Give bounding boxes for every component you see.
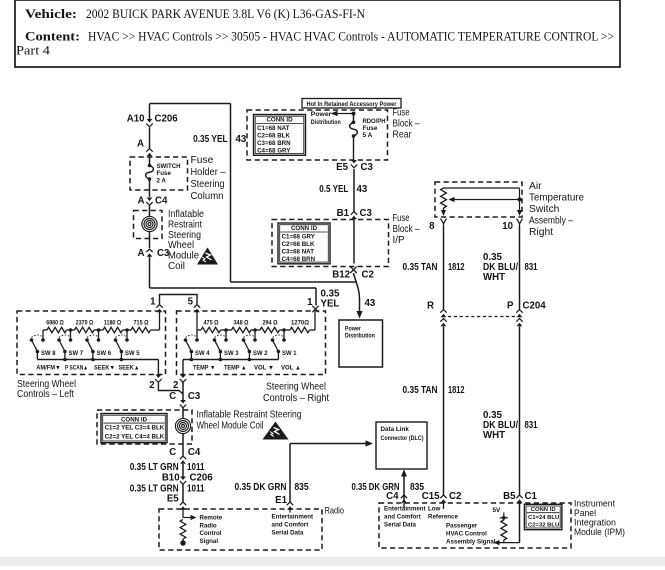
svg-text:Controls – Left: Controls – Left — [17, 389, 74, 400]
switch SW 5 — [126, 330, 128, 340]
air temp top wire — [444, 187, 520, 189]
warning triangle lower — [263, 422, 289, 440]
svg-text:Part 4: Part 4 — [16, 44, 51, 58]
wire B5 into IPM — [519, 503, 521, 543]
connector B12 C2 — [350, 267, 356, 273]
svg-text:0.5 YEL: 0.5 YEL — [319, 184, 348, 195]
svg-text:6980 Ω: 6980 Ω — [46, 320, 64, 327]
svg-text:294 Ω: 294 Ω — [263, 320, 278, 327]
resistor chain right box — [197, 329, 201, 331]
svg-text:Integration: Integration — [574, 518, 616, 528]
svg-text:C3: C3 — [188, 391, 201, 402]
bus junction dots left — [63, 358, 67, 362]
wire C3 to coil2 — [182, 408, 184, 420]
wire right vertical net43 — [230, 104, 232, 283]
switch SW 7 — [70, 330, 72, 340]
wire B12 to power distribution — [354, 273, 360, 312]
connector B10 C206 — [180, 477, 186, 481]
svg-text:1011: 1011 — [187, 462, 205, 473]
IPM signal arrow — [498, 542, 520, 544]
scan artifact band — [0, 557, 665, 567]
svg-text:831: 831 — [525, 420, 538, 431]
wire C4 stub IPM — [403, 503, 405, 508]
svg-text:B1: B1 — [337, 208, 350, 219]
air temperature switch box — [435, 182, 522, 217]
fuse block rear box — [247, 110, 388, 160]
svg-text:1812: 1812 — [448, 262, 465, 273]
svg-text:C2=32 BLU: C2=32 BLU — [528, 523, 559, 529]
fuse SWITCH 2A — [146, 166, 154, 180]
svg-text:Rear: Rear — [393, 130, 413, 141]
inflatable restraint coil upper — [149, 211, 151, 217]
coil box lower — [97, 410, 192, 444]
wire B10 to E5 — [182, 485, 184, 503]
chain junction dots left — [69, 328, 73, 332]
wire E1 into radio — [289, 510, 291, 513]
svg-text:Low: Low — [428, 506, 441, 513]
svg-text:WHT: WHT — [483, 430, 505, 441]
svg-text:1270Ω: 1270Ω — [291, 320, 309, 327]
svg-text:1: 1 — [150, 297, 156, 308]
svg-text:C2=2 YEL C4=4 BLK: C2=2 YEL C4=4 BLK — [105, 433, 165, 440]
svg-text:E5: E5 — [167, 494, 179, 505]
svg-text:2: 2 — [173, 380, 178, 391]
connector pin1 left box — [156, 305, 162, 308]
svg-text:C: C — [169, 447, 176, 458]
svg-text:C1=68 GRY: C1=68 GRY — [282, 233, 316, 240]
svg-text:Wheel: Wheel — [168, 240, 194, 251]
svg-text:C4: C4 — [386, 491, 399, 502]
wire E5 to B1 — [353, 169, 355, 212]
coil box upper — [134, 211, 163, 239]
svg-text:Fuse: Fuse — [393, 108, 410, 119]
svg-text:CONN ID: CONN ID — [121, 416, 148, 423]
svg-text:YEL: YEL — [321, 299, 340, 310]
svg-text:C3=68 NAT: C3=68 NAT — [282, 248, 315, 255]
wire net43 upper horizontal — [231, 281, 356, 283]
svg-text:Connector (DLC): Connector (DLC) — [381, 435, 424, 442]
power distribution box — [339, 320, 383, 367]
switch SW 6 — [98, 330, 100, 340]
svg-text:SW 3: SW 3 — [224, 350, 239, 357]
svg-text:A: A — [137, 139, 144, 150]
svg-text:CONN ID: CONN ID — [291, 225, 318, 232]
svg-text:Assembly Signal: Assembly Signal — [446, 539, 496, 546]
svg-text:P SCAN▲: P SCAN▲ — [65, 365, 88, 372]
wire pin1 left into chain — [159, 312, 161, 330]
svg-text:Instrument: Instrument — [574, 499, 616, 509]
svg-text:Panel: Panel — [574, 508, 596, 518]
svg-text:Distribution: Distribution — [345, 332, 375, 339]
svg-text:Steering: Steering — [168, 230, 201, 241]
C204 dashed line — [448, 316, 515, 318]
svg-text:Serial Data: Serial Data — [272, 530, 305, 537]
wire arrow to fuse — [353, 114, 355, 123]
svg-text:AM/FM▼: AM/FM▼ — [36, 365, 61, 372]
svg-text:VOL ▼: VOL ▼ — [254, 365, 274, 372]
svg-text:B12: B12 — [332, 270, 350, 281]
svg-text:C2=68 BLK: C2=68 BLK — [257, 132, 290, 139]
svg-text:Power: Power — [311, 111, 332, 118]
junction dot fuse rear — [352, 112, 356, 116]
wire R to C15 — [443, 327, 445, 496]
svg-text:C1=2 YEL C3=4 BLK: C1=2 YEL C3=4 BLK — [105, 425, 165, 432]
wire pin5 into chain right — [196, 312, 198, 340]
svg-text:Temperature: Temperature — [529, 193, 584, 204]
svg-text:Radio: Radio — [200, 522, 217, 529]
svg-text:CONN ID: CONN ID — [266, 117, 293, 124]
svg-text:WHT: WHT — [483, 272, 505, 283]
svg-text:VOL ▲: VOL ▲ — [281, 365, 301, 372]
svg-text:831: 831 — [525, 262, 538, 273]
svg-text:Steering Wheel: Steering Wheel — [266, 382, 326, 393]
svg-text:Passenger: Passenger — [446, 523, 478, 530]
svg-text:715 Ω: 715 Ω — [134, 320, 149, 327]
wire top horizontal net43 — [150, 103, 231, 105]
svg-text:HVAC Control: HVAC Control — [446, 531, 487, 538]
svg-text:P: P — [507, 301, 514, 312]
inflatable restraint coil lower — [182, 425, 185, 428]
svg-text:0.35 DK GRN: 0.35 DK GRN — [235, 482, 287, 493]
svg-text:C2=68 BLK: C2=68 BLK — [282, 241, 315, 248]
wire pins2 merge — [158, 383, 183, 395]
svg-text:C3: C3 — [360, 208, 373, 219]
wire coil to bus — [149, 257, 151, 288]
svg-text:C4: C4 — [155, 196, 168, 207]
chain junction dots right — [224, 328, 228, 332]
svg-text:SW 2: SW 2 — [253, 350, 268, 357]
svg-text:A: A — [138, 196, 145, 207]
svg-text:C204: C204 — [523, 301, 547, 312]
svg-text:Data Link: Data Link — [381, 426, 410, 433]
svg-text:Wheel Module Coil: Wheel Module Coil — [197, 421, 264, 432]
air temp junction dot — [518, 198, 522, 202]
bus junction dots right — [190, 358, 194, 362]
wire pin8 down to R — [443, 226, 445, 309]
switch SW 2 — [254, 330, 256, 340]
bracket pins 1 and 5 — [160, 295, 198, 305]
svg-text:C3=68 BRN: C3=68 BRN — [257, 140, 291, 147]
svg-text:Holder –: Holder – — [191, 167, 226, 178]
svg-text:SWITCH: SWITCH — [157, 163, 182, 170]
connector pin2 right — [180, 375, 186, 379]
svg-text:SW 4: SW 4 — [195, 350, 210, 357]
steering wheel controls right box — [177, 311, 326, 375]
fuse holder box — [130, 157, 188, 190]
fuse block IP box — [272, 220, 389, 267]
svg-text:C1: C1 — [525, 491, 538, 502]
svg-text:Air: Air — [529, 181, 542, 192]
chain drop SW8 — [42, 330, 44, 340]
bus left box — [37, 359, 158, 361]
svg-text:475 Ω: 475 Ω — [204, 320, 219, 327]
switch SW 8 — [41, 338, 45, 342]
wire right pin1 drop — [315, 288, 317, 306]
wire C15 stub IPM — [443, 503, 445, 509]
bus to pin2 right — [182, 360, 184, 376]
svg-text:2 A: 2 A — [157, 177, 167, 184]
svg-text:C2: C2 — [362, 270, 374, 281]
conn id table IPM — [524, 504, 562, 529]
conn id table coil — [101, 414, 167, 443]
svg-text:SW 6: SW 6 — [97, 350, 112, 357]
svg-text:CONN ID: CONN ID — [531, 507, 556, 513]
svg-text:and Comfort: and Comfort — [384, 514, 421, 521]
radio box — [159, 509, 322, 550]
svg-text:0.35 YEL: 0.35 YEL — [193, 134, 228, 145]
svg-text:C3: C3 — [157, 248, 170, 259]
chain right end up — [314, 312, 316, 330]
wire branch to DLC arrow — [290, 443, 366, 445]
svg-text:C4: C4 — [188, 447, 201, 458]
svg-text:1011: 1011 — [187, 484, 205, 495]
svg-text:SW 7: SW 7 — [69, 350, 84, 357]
svg-text:Controls – Right: Controls – Right — [263, 393, 329, 404]
svg-text:43: 43 — [365, 298, 376, 309]
wire left vertical upper — [149, 104, 151, 120]
hot in retained accessory power box — [302, 99, 401, 109]
steering wheel controls left box — [17, 311, 166, 375]
header box — [15, 0, 620, 67]
air temp resistor — [441, 188, 447, 208]
wire fuse to C4 — [149, 190, 151, 197]
svg-text:A10: A10 — [127, 114, 145, 125]
svg-text:C2: C2 — [449, 491, 461, 502]
svg-text:C4=68 BRN: C4=68 BRN — [282, 256, 316, 263]
wire E1 to DLC branch — [289, 444, 291, 503]
connector pin2 left — [156, 375, 162, 379]
wire C4 to B10 — [182, 464, 184, 477]
connector C206 A10 — [147, 119, 153, 123]
svg-text:SW 8: SW 8 — [41, 350, 56, 357]
svg-text:HVAC >> HVAC Controls >> 30505: HVAC >> HVAC Controls >> 30505 - HVAC HV… — [88, 30, 614, 44]
svg-text:C: C — [169, 391, 176, 402]
wire DLC to IPM C4 — [403, 471, 405, 503]
svg-text:8: 8 — [429, 221, 435, 232]
bus to pin2 left — [157, 360, 159, 376]
conn id table fuse block IP — [278, 223, 330, 264]
svg-text:Serial Data: Serial Data — [384, 522, 417, 529]
radio internal resistor — [180, 520, 186, 540]
svg-text:C1=24 BLU: C1=24 BLU — [528, 515, 559, 521]
svg-text:Entertainment: Entertainment — [384, 506, 426, 513]
svg-text:C15: C15 — [422, 491, 440, 502]
svg-text:SEEK▲: SEEK▲ — [119, 365, 140, 372]
svg-text:Module: Module — [168, 251, 199, 262]
svg-text:Reference: Reference — [428, 514, 458, 521]
svg-text:2370 Ω: 2370 Ω — [76, 320, 94, 327]
wire into fuse holder — [149, 157, 151, 166]
svg-text:Column: Column — [191, 191, 224, 202]
svg-text:SW 1: SW 1 — [282, 350, 297, 357]
air temp wiper arrow — [452, 199, 520, 201]
svg-text:Assembly –: Assembly – — [529, 216, 573, 227]
svg-text:E1: E1 — [275, 495, 287, 506]
svg-text:E5: E5 — [336, 162, 348, 173]
data link connector box — [376, 422, 427, 469]
svg-text:1180 Ω: 1180 Ω — [104, 320, 122, 327]
svg-text:Control: Control — [200, 530, 222, 537]
connector pin5 right box — [194, 305, 200, 308]
svg-text:835: 835 — [295, 482, 310, 493]
svg-text:Block –: Block – — [393, 119, 420, 130]
svg-text:TEMP ▼: TEMP ▼ — [193, 365, 216, 372]
svg-text:and Comfort: and Comfort — [272, 522, 309, 529]
svg-text:SW 5: SW 5 — [125, 350, 140, 357]
svg-text:Steering: Steering — [191, 179, 225, 190]
svg-text:Restraint: Restraint — [168, 219, 202, 230]
svg-text:Block –: Block – — [393, 224, 420, 235]
fuse RDO/PH 5A — [350, 122, 358, 136]
conn id table fuse block rear — [254, 115, 306, 156]
svg-text:Fuse: Fuse — [191, 155, 214, 166]
warning triangle upper — [197, 248, 218, 265]
switch SW 1 — [283, 330, 285, 340]
svg-text:Switch: Switch — [529, 204, 560, 215]
svg-text:Inflatable Restraint Steering: Inflatable Restraint Steering — [197, 410, 302, 421]
svg-text:2: 2 — [149, 380, 154, 391]
svg-text:Fuse: Fuse — [157, 170, 172, 177]
svg-text:Remote: Remote — [200, 515, 223, 522]
svg-text:C1=68 NAT: C1=68 NAT — [257, 125, 290, 132]
svg-text:Right: Right — [529, 227, 553, 238]
svg-text:1: 1 — [307, 297, 313, 308]
svg-text:A: A — [138, 248, 145, 259]
svg-text:0.35 LT GRN: 0.35 LT GRN — [130, 462, 179, 473]
svg-text:Module (IPM): Module (IPM) — [574, 527, 625, 537]
remote radio control signal arrow — [183, 517, 191, 519]
svg-text:C3: C3 — [361, 162, 374, 173]
svg-text:Coil: Coil — [168, 261, 185, 272]
svg-text:2002 BUICK PARK AVENUE 3.8L V6: 2002 BUICK PARK AVENUE 3.8L V6 (K) L36-G… — [86, 7, 365, 21]
bus right box — [183, 359, 278, 361]
switch SW 3 — [225, 330, 227, 340]
switch SW 4 — [195, 338, 199, 342]
svg-text:5 A: 5 A — [363, 132, 373, 139]
svg-text:Fuse: Fuse — [393, 213, 410, 224]
svg-text:1812: 1812 — [448, 385, 465, 396]
svg-text:10: 10 — [502, 221, 513, 232]
svg-text:C4=68 GRY: C4=68 GRY — [257, 147, 291, 154]
connector E5 C3 — [351, 160, 357, 164]
svg-text:B10: B10 — [162, 473, 180, 484]
svg-text:SEEK▼: SEEK▼ — [94, 365, 115, 372]
svg-text:348 Ω: 348 Ω — [234, 320, 249, 327]
wire A10 to A — [149, 128, 151, 149]
power distribution feed arrow — [337, 113, 354, 115]
svg-text:Radio: Radio — [325, 506, 345, 516]
svg-text:Content:: Content: — [25, 30, 80, 44]
svg-text:43: 43 — [236, 134, 247, 145]
wire signal horizontal coil to right pin1 — [150, 287, 317, 289]
svg-text:0.35 TAN: 0.35 TAN — [403, 262, 438, 273]
wire P to B5 — [519, 327, 521, 496]
svg-text:Entertainment: Entertainment — [272, 514, 314, 521]
instrument panel integration module box — [379, 503, 571, 548]
resistor chain left box — [47, 327, 67, 332]
svg-text:B5: B5 — [503, 491, 516, 502]
svg-text:R: R — [427, 301, 434, 312]
svg-text:I/P: I/P — [393, 235, 405, 246]
svg-text:5: 5 — [188, 297, 194, 308]
svg-text:C206: C206 — [190, 473, 214, 484]
wire E5 into radio — [182, 510, 184, 518]
svg-text:TEMP ▲: TEMP ▲ — [224, 365, 247, 372]
svg-text:5V: 5V — [493, 507, 502, 514]
svg-text:43: 43 — [357, 184, 368, 195]
svg-text:C206: C206 — [155, 114, 179, 125]
svg-text:Signal: Signal — [200, 538, 219, 545]
svg-text:0.35 TAN: 0.35 TAN — [403, 385, 438, 396]
svg-text:Hot In Retained Accessory Powe: Hot In Retained Accessory Power — [307, 101, 398, 108]
wire through fuse block IP — [353, 220, 355, 264]
svg-text:Vehicle:: Vehicle: — [25, 7, 77, 21]
wire pin10 down to P — [519, 226, 521, 309]
connector pin1 right box — [312, 306, 318, 312]
radio ground dot — [182, 539, 184, 541]
svg-text:Distribution: Distribution — [311, 119, 341, 126]
svg-text:Inflatable: Inflatable — [168, 209, 204, 220]
